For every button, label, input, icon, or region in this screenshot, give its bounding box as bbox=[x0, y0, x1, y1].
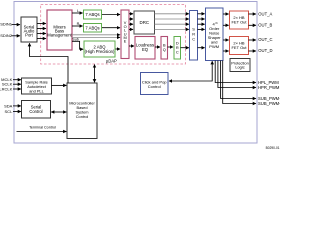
svg-text:C: C bbox=[192, 37, 195, 42]
svg-text:OUT_B: OUT_B bbox=[258, 23, 272, 28]
svg-text:DRC: DRC bbox=[140, 20, 150, 25]
svg-text:HPR_PWM: HPR_PWM bbox=[258, 85, 280, 90]
svg-text:Q: Q bbox=[163, 47, 166, 52]
svg-text:LRCLK: LRCLK bbox=[0, 87, 13, 92]
svg-text:OUT_A: OUT_A bbox=[258, 11, 272, 16]
svg-text:7 ABQs: 7 ABQs bbox=[85, 12, 99, 17]
svg-text:PWM: PWM bbox=[209, 44, 219, 49]
svg-text:SDA: SDA bbox=[4, 103, 13, 108]
svg-text:C: C bbox=[176, 49, 179, 54]
svg-text:SCL: SCL bbox=[5, 109, 14, 114]
svg-text:Port: Port bbox=[25, 33, 34, 38]
svg-text:OUT_C: OUT_C bbox=[258, 37, 272, 42]
svg-text:(High Precision): (High Precision) bbox=[85, 49, 115, 54]
svg-text:and PLL: and PLL bbox=[29, 88, 44, 93]
svg-text:E: E bbox=[124, 39, 127, 44]
svg-text:Control: Control bbox=[148, 84, 161, 89]
svg-text:Control: Control bbox=[76, 114, 89, 119]
svg-text:Logic: Logic bbox=[235, 65, 244, 70]
svg-text:B0290-01: B0290-01 bbox=[266, 146, 280, 150]
svg-text:FET Out: FET Out bbox=[231, 45, 247, 50]
svg-text:FET Out: FET Out bbox=[231, 20, 247, 25]
svg-text:SDIN2: SDIN2 bbox=[0, 33, 13, 38]
svg-text:Control: Control bbox=[29, 109, 42, 114]
svg-text:7 ABQs: 7 ABQs bbox=[85, 25, 99, 30]
svg-text:SUB_PWM−: SUB_PWM− bbox=[258, 101, 280, 106]
svg-text:Terminal Control: Terminal Control bbox=[29, 125, 56, 129]
svg-text:Management: Management bbox=[47, 33, 72, 38]
svg-text:SDIN1: SDIN1 bbox=[0, 21, 13, 26]
svg-text:EQ: EQ bbox=[142, 47, 149, 52]
svg-text:OUT_D: OUT_D bbox=[258, 48, 272, 53]
svg-text:µDAP: µDAP bbox=[106, 59, 117, 64]
